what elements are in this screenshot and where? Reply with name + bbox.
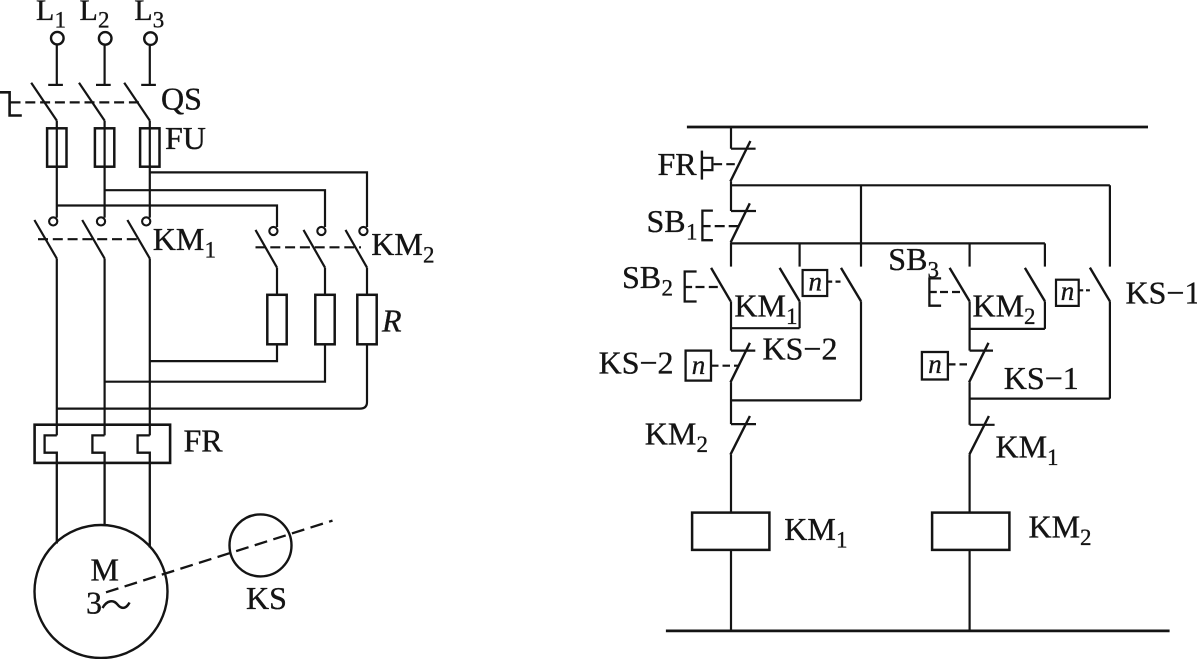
FR linkage dashes [714,163,739,165]
svg-text:FU: FU [165,120,206,156]
n2 letter [692,350,706,380]
wire SB2 to KS-2 [730,301,732,350]
contact KM2 aux label [973,288,1036,330]
svg-text:KM: KM [973,288,1025,324]
SB2 operator bracket [685,272,697,302]
wire SB1 to node B [730,242,732,266]
wire KM1 aux lower [798,301,800,328]
KS-2 left label [599,344,674,380]
QS operator bracket [0,92,22,115]
contactor KM2 fixed contact circle 2 [317,227,325,235]
wire KM2 NC to coil [730,455,732,513]
svg-text:SB: SB [622,259,661,295]
motor M circle [35,525,168,658]
shaft dashed line to KS [106,521,333,593]
svg-text:2: 2 [1024,304,1036,329]
wire KS-1 to KM1 contact [968,382,970,425]
wire R2 return to phase2 [105,344,325,381]
n1 contact upper wire [860,185,862,266]
svg-text:L: L [80,0,98,27]
KS-1 NC contact tick [970,350,993,352]
svg-text:2: 2 [1080,525,1092,550]
motor tilde symbol [103,601,130,608]
contact KM1 NC label [996,429,1059,471]
svg-text:SB: SB [647,203,686,239]
contactor KM2 blade 3 [346,230,368,268]
KM2 linkage dashed line [256,246,362,248]
contact KM1 aux label [734,288,797,330]
wire phase1 through fuse [56,121,58,218]
speed box n1 [803,270,828,296]
svg-text:KS−2: KS−2 [763,331,838,367]
pushbutton SB2 label [622,259,673,301]
switch QS blade phase2 [79,83,105,121]
contactor KM2 fixed contact circle 3 [359,227,367,235]
FR operator box [702,158,713,170]
n1 NO contact blade [841,268,861,301]
svg-text:L: L [36,0,54,27]
resistor R label [381,303,402,339]
svg-text:3: 3 [153,8,165,33]
KS-1 NC contact blade [969,343,988,383]
contactor KM1 fixed contact circle phase2 [97,217,105,225]
svg-text:1: 1 [686,220,698,245]
wire tap phase1 to KM2 [57,206,277,228]
svg-text:1: 1 [205,238,217,263]
svg-text:M: M [91,552,119,588]
svg-text:L: L [134,0,152,27]
svg-text:2: 2 [697,432,709,457]
SB3 drop wire [968,243,970,266]
KS-1 far right label [1126,275,1197,311]
wire R3 return to phase1 [57,344,367,408]
wire bus to FR contact [730,127,732,149]
KS-1 branch rejoin wire [970,398,1110,400]
QS fixed contact tick phase1 [48,84,63,86]
svg-text:FR: FR [184,422,224,458]
terminal L2 [99,32,112,45]
n2 far-right contact upper wire [1109,185,1111,266]
node A horizontal wire [731,184,1110,186]
QS fixed contact tick phase2 [96,84,111,86]
svg-text:2: 2 [98,8,110,33]
svg-text:3: 3 [86,585,102,621]
speed box n4 [922,352,948,380]
coil KM1 [692,513,769,550]
switch QS blade phase3 [124,83,150,121]
svg-text:KM: KM [734,288,786,324]
wire KM2 blade2 to resistor [324,268,326,295]
wire tap phase2 to KM2 [105,190,325,227]
node L2 label [80,0,110,33]
wire KM2 coil to bus [968,550,970,631]
contact KM2 NC blade [730,416,750,455]
wire R1 return to phase3 [150,344,277,361]
n3 linkage dashes [1079,289,1090,291]
wire phase2 lower [103,259,105,436]
n3 letter [1061,276,1075,306]
fuse FU phase1 [47,128,66,166]
switch QS label [161,80,202,116]
KS-2 contact tick [731,350,755,352]
n1 branch rejoin wire [731,399,861,401]
FR heater element phase2 [92,435,104,525]
node L3 label [134,0,164,33]
FR contact tick [731,148,756,150]
FR contact label [658,146,698,182]
QS linkage dashed line [11,101,144,103]
svg-text:1: 1 [786,304,798,329]
wire KM2 blade3 to resistor [366,268,368,295]
svg-text:KM: KM [371,226,423,262]
svg-text:SB: SB [888,241,927,277]
contact KM1 NC blade [969,416,989,454]
svg-text:KS−2: KS−2 [599,344,674,380]
wire L3 drop [149,45,151,85]
n2 linkage dashes [711,365,738,367]
fuse FU label [165,120,206,156]
svg-text:KM: KM [153,221,205,257]
wire phase2 through fuse [103,121,105,218]
SB2 linkage dashes [696,286,722,288]
terminal L1 [51,32,64,45]
n1 linkage dashes [827,281,841,283]
KS-1 NO contact blade [1090,268,1110,302]
SB3 operator bracket [929,278,941,305]
wire phase3 through fuse [149,121,151,218]
pushbutton SB1 label [647,203,698,245]
FR NC contact blade [730,141,750,181]
contact KM2 NC label [645,416,708,458]
fuse FU phase3 [140,128,159,166]
contact KM2 aux drop wire [1044,243,1046,266]
contact KM1 aux NO blade [780,268,800,301]
n4 letter [928,349,942,379]
thermal relay FR label [184,422,224,458]
wire phase1 lower [56,259,58,436]
thermal relay FR box [35,425,171,463]
svg-text:KM: KM [996,429,1048,465]
fuse FU phase2 [95,128,114,166]
svg-text:KS−1: KS−1 [1126,275,1197,311]
svg-text:R: R [381,303,402,339]
svg-text:1: 1 [55,8,67,33]
svg-text:n: n [1061,276,1075,306]
contactor KM2 blade 2 [304,230,326,268]
QS fixed contact tick phase3 [141,84,156,86]
motor 3-phase label [86,585,102,621]
wire KM2 aux rejoin [970,328,1045,330]
speed box n2 [686,351,711,381]
contactor KM1 label [153,221,216,263]
svg-text:FR: FR [658,146,698,182]
wire L1 drop [56,45,58,85]
KS-2 right label [763,331,838,367]
SB3 operator mid bar [929,291,936,293]
contactor KM2 fixed contact circle 1 [269,227,277,235]
contact KM1 aux drop wire [798,243,800,266]
SB1 operator bracket [702,211,713,241]
top bus wire [687,126,1148,129]
SB2 operator mid bar [685,286,692,288]
FR operator bar [701,151,703,180]
SB1 contact tick [731,210,756,212]
wire L2 drop [103,45,105,85]
contactor KM1 blade phase3 [127,220,149,259]
svg-text:KS: KS [246,580,287,616]
speed relay KS label [246,580,287,616]
pushbutton SB2 NO blade [711,268,731,301]
svg-text:KM: KM [784,511,836,547]
wire KM2 aux lower [1044,301,1046,329]
speed relay KS circle [230,514,292,576]
SB1 linkage dashes [715,225,739,227]
svg-text:n: n [928,349,942,379]
wire tap phase3 to KM2 [150,172,367,227]
wire KM1 coil to bus [730,550,732,631]
resistor R 2 [315,295,334,345]
KS-1 NC label [1004,360,1079,396]
wire KM1 aux rejoin [731,327,800,329]
svg-text:KM: KM [645,416,697,452]
wire SB3 to KS-1 [968,301,970,350]
contactor KM1 blade phase2 [82,220,104,259]
KM2 NC contact tick [731,423,756,425]
switch QS blade phase1 [31,83,57,121]
pushbutton SB3 label [888,241,939,282]
coil KM1 label [784,511,847,553]
contactor KM1 fixed contact circle phase3 [142,217,150,225]
wire FR to node A [730,181,732,211]
svg-text:n: n [692,350,706,380]
wire KM1 NC to coil [968,454,970,512]
svg-text:QS: QS [161,80,202,116]
svg-text:KM: KM [1029,509,1081,545]
coil KM2 [932,513,1009,550]
motor M label [91,552,119,588]
node L1 label [36,0,66,33]
pushbutton SB1 NC blade [731,203,750,242]
FR heater element phase1 [45,435,57,543]
pushbutton SB3 NO blade [950,268,970,301]
n1 letter [809,267,823,297]
speed box n3 [1056,280,1079,306]
resistor R 1 [267,295,286,345]
KM1 linkage dashed line [38,238,140,240]
coil KM2 label [1029,509,1092,551]
svg-text:1: 1 [1047,445,1059,470]
svg-text:KS−1: KS−1 [1004,360,1079,396]
terminal L3 [144,32,157,45]
KM1 NC contact tick [970,424,995,426]
contact KM2 aux NO blade [1025,268,1045,301]
contactor KM1 blade phase1 [34,220,56,259]
SB1 operator mid bar [702,225,710,227]
resistor R 3 [357,295,376,345]
contactor KM1 fixed contact circle phase1 [49,217,57,225]
KS-1 NO contact lower wire [1109,301,1111,398]
wire phase3 lower [149,259,151,436]
node B horizontal wire [731,242,1045,244]
wire KS-2 to KM2 contact [730,382,732,424]
SB3 linkage dashes [940,291,962,293]
bottom bus wire [666,630,1170,633]
svg-text:1: 1 [836,528,848,553]
FR heater element phase3 [138,435,150,547]
svg-text:n: n [809,267,823,297]
contactor KM2 label [371,226,434,268]
n1 contact lower wire [860,301,862,400]
svg-text:2: 2 [423,243,435,268]
wire KM2 blade1 to resistor [276,268,278,295]
svg-text:3: 3 [928,258,940,283]
svg-text:2: 2 [662,276,674,301]
contactor KM2 blade 1 [256,230,278,268]
KS-2 NC contact blade [731,343,750,383]
n4 linkage dashes [948,363,967,365]
